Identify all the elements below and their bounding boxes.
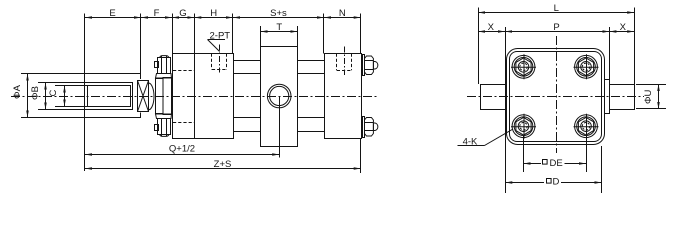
rear block outline — [325, 54, 362, 139]
flange plate inner — [510, 52, 602, 142]
tube bottom line right gap — [298, 117, 325, 119]
tie rod lower line left gap — [233, 131, 261, 133]
svg-text:T: T — [276, 22, 282, 33]
port 2-PT dashed rectangle — [211, 54, 213, 70]
tick L right / pin end — [634, 8, 636, 85]
dimension F top line — [141, 17, 172, 19]
svg-text:X: X — [488, 22, 495, 33]
svg-text:P: P — [553, 22, 559, 33]
head flange and head block outline — [173, 54, 234, 139]
tie rod nut bottom-right hex — [365, 118, 374, 137]
svg-text:DE: DE — [550, 158, 563, 169]
trunnion center vertical tick — [279, 96, 281, 158]
center crosshair vertical — [556, 36, 558, 153]
piston rod inner thread rectangle — [88, 86, 131, 107]
tie rod nut top-right washer — [363, 55, 365, 76]
extension tick x=141 lower segment — [140, 113, 142, 119]
extension lines C — [55, 85, 88, 87]
tick DE left — [523, 136, 525, 172]
svg-text:N: N — [339, 8, 346, 19]
tick T left — [260, 26, 262, 47]
bolt hole bottom-right — [574, 114, 599, 139]
hidden tie rod line in flange bottom — [173, 122, 194, 124]
extension tick x=85 rod end face — [84, 14, 86, 172]
dimension N top line — [324, 17, 361, 19]
left trunnion pin — [481, 85, 507, 110]
dimension Z+S line — [85, 168, 361, 170]
rod end spanner flat box with X — [138, 81, 149, 112]
svg-text:L: L — [554, 3, 559, 14]
bolt hole top-right — [574, 54, 599, 79]
dimension T line — [261, 31, 298, 33]
tie rod lower line right gap — [298, 131, 324, 133]
bolt holes group — [511, 54, 599, 138]
rear port dashed rectangle — [336, 54, 338, 71]
svg-text:F: F — [154, 8, 160, 19]
svg-text:ΦA: ΦA — [12, 84, 23, 99]
tie rod dome bottom-right — [373, 123, 377, 131]
svg-text:2-PT: 2-PT — [210, 30, 231, 41]
4-K leader — [485, 129, 514, 146]
dimension H top line — [194, 17, 233, 19]
rod end arc bulge — [149, 83, 155, 110]
tube top line left gap — [234, 73, 261, 75]
tie rod nut top-right hex — [365, 56, 374, 75]
label leader 2-PT underline — [208, 39, 226, 41]
4-K underline — [458, 145, 485, 147]
tick T right — [297, 26, 299, 47]
extension tick x=172 flange face — [172, 14, 174, 139]
dimension phiU vertical — [658, 84, 660, 109]
dimension D line — [505, 182, 601, 184]
dimension G top line — [172, 17, 194, 19]
svg-text:ΦU: ΦU — [643, 89, 654, 104]
svg-text:E: E — [109, 8, 115, 19]
dimension DE line — [524, 163, 587, 165]
dimension P — [505, 31, 609, 33]
extension tick x=360.7 rear block right edge — [360, 14, 362, 54]
flange plate outer — [507, 49, 605, 145]
label leader 2-PT diagonal — [208, 40, 220, 52]
Z+S right tick below — [360, 139, 362, 174]
trunnion block — [261, 47, 298, 147]
bolt hole top-left — [511, 54, 536, 79]
extension tick x=324 rear block left edge — [323, 14, 325, 54]
dimension Q+1/2 line — [85, 154, 279, 156]
tie rod nut bottom-left hex — [158, 119, 171, 135]
extension tick x=141 — [140, 14, 142, 80]
extension lines phiA long — [21, 73, 141, 75]
svg-text:4-K: 4-K — [463, 136, 478, 147]
label square-DE square symbol — [543, 160, 548, 165]
dimension C vertical line — [64, 86, 66, 107]
svg-text:X: X — [620, 22, 627, 33]
tie rod nut bottom-right washer — [363, 117, 365, 138]
wire horizontal main centerline of side view — [11, 96, 378, 98]
extension tick x=194.3 head divider — [194, 14, 196, 139]
tick DE right — [586, 136, 588, 172]
tie rod upper line left gap — [233, 60, 261, 62]
extension tick x=233 head right edge — [232, 14, 234, 54]
label square-DE background — [541, 157, 565, 168]
dimension L line — [478, 12, 634, 14]
dimension E top line — [85, 17, 141, 19]
right pin collar — [605, 80, 610, 114]
rear port centerline — [344, 47, 346, 76]
tie rod stub bottom-left — [155, 125, 159, 131]
dimension phiB vertical line — [45, 83, 47, 110]
tube top line right gap — [298, 73, 325, 75]
dimension X left — [478, 31, 505, 33]
tube bottom line left gap — [234, 117, 261, 119]
label square-D square symbol — [547, 179, 552, 184]
svg-text:ΦB: ΦB — [30, 86, 41, 100]
tie rod nut top-left hex — [158, 58, 171, 74]
dimension X right — [609, 31, 634, 33]
tick L left / pin end — [478, 8, 480, 85]
svg-text:S+s: S+s — [270, 8, 287, 19]
svg-text:C: C — [48, 89, 59, 96]
hidden tie rod line in flange top — [173, 70, 194, 72]
dimension S+s top line — [233, 17, 324, 19]
trunnion pin inner circle — [270, 86, 289, 105]
label square-D background — [544, 176, 561, 187]
tie rod nut bottom-left washer — [156, 114, 172, 119]
extension lines phiU — [636, 84, 666, 86]
tie rod stub top-left — [155, 62, 159, 68]
dimension phiA vertical line — [27, 74, 29, 118]
port 2-PT centerline — [219, 45, 221, 73]
svg-text:G: G — [179, 8, 186, 19]
svg-text:H: H — [210, 8, 217, 19]
tick P right — [609, 27, 611, 80]
tick D right — [601, 146, 603, 193]
trunnion pin outer circle — [267, 84, 291, 108]
piston rod outer rectangle — [85, 83, 133, 110]
tie rod nut top-left washer — [156, 74, 172, 79]
bolt hole bottom-left — [511, 114, 536, 139]
center crosshair horizontal — [467, 96, 644, 98]
svg-text:Z+S: Z+S — [214, 159, 232, 170]
tick P left continuous to D tick — [505, 27, 507, 193]
gland boss collar — [156, 79, 164, 114]
svg-text:D: D — [553, 176, 560, 187]
extension lines phiB — [38, 82, 85, 84]
gland retainer plate — [163, 78, 172, 115]
tie rod dome top-right — [373, 62, 377, 70]
right trunnion pin — [610, 85, 635, 110]
svg-text:Q+1/2: Q+1/2 — [169, 144, 195, 155]
tie rod upper line right gap — [298, 60, 324, 62]
